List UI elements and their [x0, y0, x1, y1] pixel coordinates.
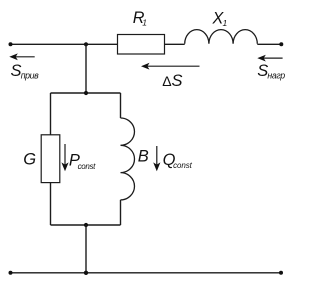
wire B branch upper	[120, 93, 122, 118]
wire shunt loop top	[51, 92, 121, 94]
node junction loop bottom	[84, 223, 88, 227]
wire B branch lower	[120, 200, 122, 225]
svg-text:Qconst: Qconst	[163, 151, 193, 170]
wire G branch lower	[50, 183, 52, 225]
node junction top	[84, 42, 88, 46]
wire shunt loop bottom	[51, 224, 121, 226]
svg-text:Sнагр: Sнагр	[257, 62, 285, 81]
svg-text:Pconst: Pconst	[69, 152, 96, 171]
node top-left terminal	[9, 42, 13, 46]
svg-text:B: B	[138, 148, 149, 166]
node bottom-right terminal	[279, 271, 283, 275]
wire G branch upper	[50, 93, 52, 135]
svg-text:ΔS: ΔS	[162, 72, 182, 90]
inductor X1	[185, 30, 258, 44]
node top-right terminal	[279, 42, 283, 46]
arrow Sнагр (points left)	[262, 57, 283, 59]
svg-text:X1: X1	[212, 9, 228, 28]
wire bottom bus	[11, 272, 282, 274]
wire top bus left segment	[11, 43, 118, 45]
wire vertical from top bus to shunt loop	[85, 44, 87, 93]
node junction bottom	[84, 271, 88, 275]
wire top bus right segment	[257, 43, 281, 45]
arrow Sprив flow (points left)	[15, 56, 35, 58]
resistor R1	[118, 35, 165, 55]
inductor B	[121, 118, 135, 200]
arrow Qconst (points down)	[156, 146, 158, 166]
wire vertical from loop to bottom bus	[85, 225, 87, 273]
wire resistor to inductor	[165, 43, 185, 45]
svg-text:R1: R1	[133, 9, 148, 28]
node junction loop top	[84, 91, 88, 95]
arrow Pconst (points down)	[64, 144, 66, 166]
svg-text:Sприв: Sприв	[11, 62, 40, 80]
svg-text:G: G	[23, 150, 36, 168]
conductance G	[41, 135, 60, 183]
arrow deltaS (points left)	[146, 65, 200, 67]
node bottom-left terminal	[9, 271, 13, 275]
